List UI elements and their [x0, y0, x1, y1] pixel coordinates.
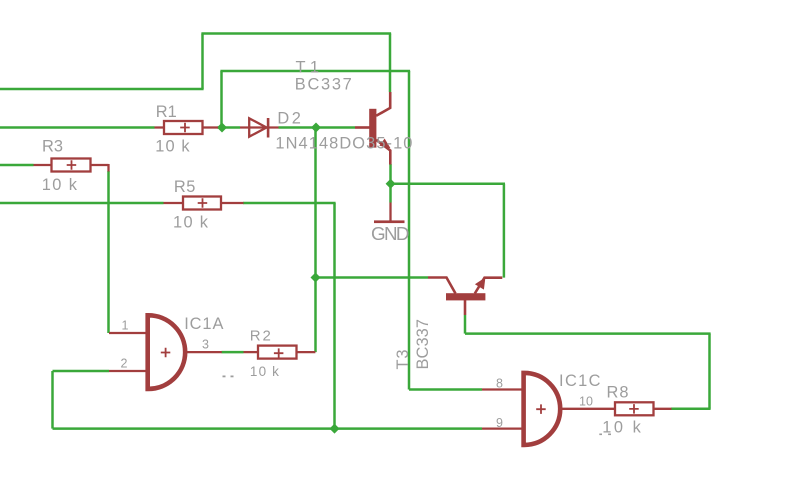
svg-text:D2: D2 — [277, 110, 301, 128]
svg-text:IC1A: IC1A — [184, 315, 223, 333]
svg-text:BC337: BC337 — [295, 76, 352, 94]
svg-text:T3: T3 — [394, 350, 412, 370]
svg-text:9: 9 — [496, 416, 503, 430]
svg-text:10 k: 10 k — [155, 138, 190, 156]
svg-text:8: 8 — [496, 377, 503, 391]
svg-text:2: 2 — [121, 357, 128, 371]
svg-text:10 k: 10 k — [42, 176, 78, 194]
svg-text:GND: GND — [371, 223, 410, 244]
svg-text:BC337: BC337 — [414, 319, 432, 370]
svg-text:1: 1 — [122, 319, 129, 333]
svg-text:R1: R1 — [156, 103, 177, 121]
svg-text:10 k: 10 k — [173, 214, 209, 232]
svg-text:R2: R2 — [250, 327, 271, 344]
svg-text:T1: T1 — [296, 59, 320, 77]
svg-text:10 k: 10 k — [250, 364, 279, 379]
svg-text:1N4148DO35-10: 1N4148DO35-10 — [275, 135, 412, 153]
svg-text:10: 10 — [579, 395, 593, 409]
svg-text:R8: R8 — [607, 383, 629, 401]
svg-text:IC1C: IC1C — [559, 372, 601, 390]
svg-text:R5: R5 — [174, 178, 196, 196]
svg-text:R3: R3 — [42, 138, 63, 156]
svg-text:3: 3 — [202, 338, 209, 352]
